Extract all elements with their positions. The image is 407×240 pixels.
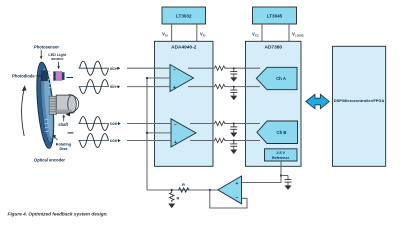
- svg-text:sin+: sin+: [110, 66, 119, 71]
- wire amp1 out- to ADC: [188, 86, 260, 88]
- svg-text:VS−: VS−: [200, 32, 207, 38]
- reference block 2.5V: [265, 149, 298, 161]
- amplifier block U1 ADA4940-2: [155, 41, 214, 166]
- LED holder left bar: [53, 71, 55, 80]
- photosensor housing: [42, 71, 48, 81]
- encoder disk face: [39, 67, 56, 143]
- waveform sin+: [79, 61, 109, 75]
- label cos-: [110, 138, 121, 143]
- svg-text:LT3045: LT3045: [267, 13, 283, 18]
- LED emitter cube: [56, 72, 63, 80]
- op-amp U5 VOCM buffer: [218, 176, 242, 204]
- resistor R divider shunt: [170, 190, 180, 202]
- svg-text:−: −: [174, 122, 177, 128]
- wire VCC supply: [261, 24, 263, 41]
- svg-text:Figure 4. Optimized feedback s: Figure 4. Optimized feedback system desi…: [8, 211, 108, 216]
- svg-text:Ch B: Ch B: [276, 130, 286, 135]
- wire amp1 out+ to ADC: [188, 67, 260, 69]
- wire sin+ input: [127, 67, 170, 69]
- svg-text:source: source: [51, 57, 63, 61]
- svg-text:R: R: [182, 182, 185, 187]
- svg-text:+: +: [236, 181, 239, 187]
- ground for C5: [285, 185, 292, 190]
- svg-text:+: +: [173, 85, 176, 91]
- LED holder right bar: [62, 72, 64, 80]
- svg-text:+: +: [174, 140, 177, 146]
- svg-text:Photosensor: Photosensor: [34, 44, 59, 49]
- waveform cos-: [79, 133, 109, 147]
- ground for C1: [230, 77, 237, 82]
- svg-text:Optical encoder: Optical encoder: [34, 157, 65, 162]
- svg-text:DSP/Microcontroller/FPGA: DSP/Microcontroller/FPGA: [334, 98, 385, 103]
- label Photodiode: [12, 74, 42, 79]
- wire amp2 out+ to ADC: [190, 123, 260, 125]
- svg-text:Rotating: Rotating: [56, 142, 72, 146]
- ground for C2: [230, 96, 237, 101]
- ADC channel B input stage: [257, 121, 298, 144]
- op-amp A2 in ADA4940-2 channel 2: [171, 119, 196, 147]
- wire amp2 out- to ADC: [190, 140, 260, 142]
- capacitor filter C4: [230, 140, 237, 150]
- light beam dash sin: [67, 77, 74, 79]
- node buffer output: [209, 189, 211, 191]
- svg-text:Reference: Reference: [272, 156, 289, 160]
- motor shaft cylinder: [56, 95, 76, 113]
- capacitor filter C3: [230, 123, 237, 133]
- svg-text:sin−: sin−: [110, 84, 119, 89]
- svg-text:Photodiode: Photodiode: [12, 74, 35, 79]
- svg-text:VS+: VS+: [162, 32, 169, 38]
- wire VOCM stub amp2: [147, 132, 171, 134]
- DSP block: [333, 46, 386, 166]
- label sin-: [110, 84, 120, 89]
- node VOCM2 junction: [146, 132, 148, 134]
- wire VS- supply: [196, 24, 198, 41]
- wire VOCM stub amp1: [147, 77, 170, 79]
- wire reference output: [242, 161, 282, 183]
- svg-text:−: −: [236, 195, 239, 201]
- svg-text:AD7380: AD7380: [264, 45, 282, 51]
- encoder disk code track ticks: [44, 71, 52, 132]
- node VOCM1 junction: [146, 77, 148, 79]
- waveform cos+: [79, 116, 109, 130]
- ADC channel A input stage: [256, 67, 297, 89]
- resistor filter R4: [215, 138, 226, 142]
- svg-text:−: −: [173, 68, 176, 74]
- waveform sin-: [79, 80, 109, 94]
- wire VLOGIC supply: [288, 24, 290, 41]
- wire cap branch: [281, 175, 288, 177]
- regulator U3 LT3032 box: [162, 7, 206, 24]
- label shaft: [58, 114, 68, 127]
- label cos+: [110, 121, 121, 126]
- wire VOCM rail: [146, 78, 148, 190]
- node divider junction: [171, 189, 173, 191]
- node reference cap junction: [280, 174, 282, 176]
- wire cos- input: [127, 140, 171, 142]
- capacitor filter C2: [230, 86, 237, 96]
- svg-text:2.5 V: 2.5 V: [276, 151, 285, 155]
- light beam dash cos: [68, 132, 74, 134]
- op-amp A1 in ADA4940-2 channel 1: [170, 65, 194, 92]
- ADC block U2 AD7380: [246, 41, 302, 166]
- wire VS+ supply: [171, 24, 173, 41]
- encoder disk outer: [34, 61, 57, 149]
- label Rotating Disk: [52, 134, 72, 151]
- regulator U4 LT3045 box: [253, 7, 297, 24]
- svg-text:LT3032: LT3032: [176, 13, 192, 18]
- wire feedback loop: [210, 190, 247, 208]
- wire cos+ input: [127, 123, 171, 125]
- svg-text:Ch A: Ch A: [276, 76, 286, 81]
- rotation arrow disk left: [22, 85, 27, 136]
- resistor R divider series: [179, 182, 190, 192]
- label sin+: [110, 66, 120, 71]
- ground for C3: [230, 133, 237, 138]
- capacitor C5 reference decoupling: [285, 176, 292, 186]
- svg-text:shaft: shaft: [58, 122, 68, 127]
- ground for C4: [230, 150, 237, 155]
- svg-text:VLOGIC: VLOGIC: [292, 32, 305, 38]
- label Photosensor: [34, 44, 59, 59]
- svg-text:VCC: VCC: [252, 32, 260, 38]
- bus arrow ADC to DSP: [306, 94, 330, 109]
- ground for divider: [168, 204, 175, 209]
- resistor filter R2: [215, 84, 226, 88]
- svg-text:R: R: [177, 196, 180, 201]
- label LED Light source: [48, 53, 67, 69]
- rotation arrow shaft: [66, 95, 79, 117]
- encoder disk core highlight: [42, 73, 54, 138]
- resistor filter R1: [215, 66, 226, 70]
- wire buffer output to VOCM: [147, 189, 218, 191]
- svg-text:ADA4940-2: ADA4940-2: [171, 45, 197, 51]
- resistor filter R3: [215, 121, 226, 125]
- svg-text:Disk: Disk: [59, 147, 68, 151]
- wire sin- input: [127, 86, 170, 88]
- encoder hub grid pattern: [49, 96, 56, 114]
- capacitor filter C1: [230, 67, 237, 77]
